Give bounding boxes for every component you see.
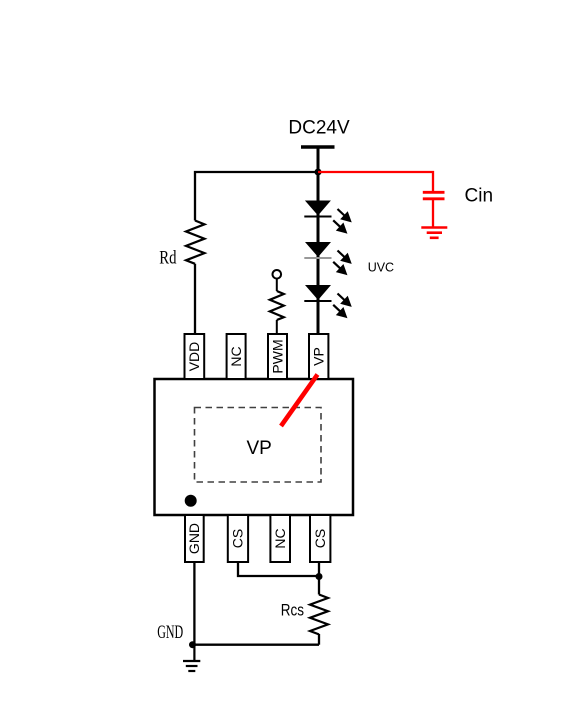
svg-text:CS: CS [312,529,328,548]
ground (red, at Cin) [421,228,447,238]
svg-text:Rcs: Rcs [281,602,304,620]
svg-text:PWM: PWM [270,339,286,373]
pin CS (right) [310,515,330,562]
svg-text:CS: CS [230,529,246,548]
svg-text:DC24V: DC24V [288,118,350,139]
LED D3 [304,285,331,301]
wire: Rcs to ground rail [318,634,320,645]
svg-text:Rd: Rd [159,249,177,269]
pin NC (top) [227,334,246,379]
pin NC (bottom) [270,515,290,562]
svg-text:VP: VP [247,438,272,459]
svg-text:NC: NC [272,528,288,548]
LED D2 [304,242,331,258]
dashed region VP [195,408,322,483]
junction node CS [316,573,323,580]
supply terminal bar DC24V [301,145,335,148]
pin-1 marker dot [185,495,197,507]
wire: junction left to Rd [195,172,318,221]
wire: ground rail [194,644,319,646]
resistor Rcs [310,595,328,635]
ground [183,645,200,671]
resistor R-PWM [270,291,284,320]
capacitor Cin [423,192,445,199]
LED D2 arrows [333,251,350,274]
wire: R-PWM to pin PWM [276,320,278,335]
terminal PWM input (open circle) [273,270,282,279]
pin PWM [268,334,287,379]
svg-text:Cin: Cin [465,186,494,207]
svg-text:VDD: VDD [186,342,202,372]
wire: LED string vertical [317,172,320,335]
junction node A [315,169,322,176]
pin GND [185,515,204,562]
wire: Rd to pin VDD [194,264,196,335]
svg-text:NC: NC [228,346,244,366]
pin CS (left) [228,515,248,562]
svg-text:VP: VP [311,347,327,366]
wire: CS left to junction [238,562,319,576]
pin VDD [185,334,205,379]
wire: PWM terminal to resistor [276,279,278,291]
wire: GND pin down [193,562,195,645]
LED D1 arrows [333,209,350,232]
red pointer line (VP pin to region) [281,375,318,427]
junction node GND [189,641,196,648]
pin VP [309,334,328,379]
svg-text:UVC: UVC [368,260,394,274]
wire: CS right down to Rcs [318,562,320,595]
resistor Rd [186,221,205,264]
LED D1 [304,201,331,217]
wire (red): junction to Cin [318,172,433,192]
svg-text:GND: GND [186,523,202,554]
svg-text:GND: GND [157,622,183,643]
IC U1 body [155,379,354,515]
wire: terminal to junction [317,147,320,173]
LED D3 arrows [333,294,350,317]
wire (red): Cin to ground [432,199,434,228]
